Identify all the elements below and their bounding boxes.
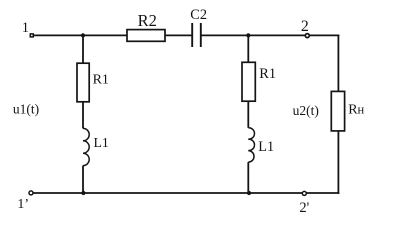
junction node bottom-right (247, 191, 251, 195)
wire right rail upper (337, 35, 339, 92)
resistor Rn (load) (331, 91, 364, 130)
terminal 2' (299, 191, 309, 216)
svg-text:L1: L1 (258, 139, 274, 155)
wire left branch upper (82, 35, 84, 63)
wire left branch lower (82, 166, 84, 193)
junction node bottom-left (81, 191, 85, 195)
svg-text:R1: R1 (259, 66, 276, 82)
terminal 1' (17, 191, 33, 212)
svg-text:R2: R2 (138, 11, 157, 30)
wire right rail lower (337, 131, 339, 194)
svg-text:1’: 1’ (17, 197, 29, 212)
terminal 1 (22, 20, 34, 37)
svg-text:L1: L1 (94, 135, 109, 150)
inductor L1 (right) (248, 128, 274, 162)
svg-text:u1(t): u1(t) (13, 102, 39, 117)
wire right branch upper (247, 35, 249, 62)
wire right branch lower (247, 162, 249, 193)
svg-text:C2: C2 (190, 7, 207, 23)
junction node top-left (81, 33, 85, 37)
resistor R1 (right) (242, 62, 276, 101)
wire top-far-right: terminal 2 to corner (310, 34, 340, 36)
resistor R1 (left) (77, 63, 109, 102)
terminal 2 (301, 18, 309, 38)
capacitor C2 (190, 7, 207, 47)
junction node top-right (246, 33, 250, 37)
wire left branch middle (82, 102, 84, 129)
svg-text:u2(t): u2(t) (293, 103, 319, 118)
svg-text:R1: R1 (93, 73, 109, 88)
wire right branch middle (247, 101, 249, 128)
wire top-mid: R2 to C2 (165, 34, 192, 36)
svg-text:1: 1 (22, 20, 29, 36)
svg-text:2': 2' (299, 200, 309, 216)
wire top-left: terminal 1 to R2 (34, 34, 127, 36)
resistor R2 (127, 11, 165, 41)
inductor L1 (left) (83, 128, 109, 165)
svg-text:Rн: Rн (348, 103, 364, 118)
wire bottom (33, 192, 339, 194)
svg-text:2: 2 (301, 18, 309, 35)
wire top-right: C2 to terminal 2 (201, 34, 305, 36)
